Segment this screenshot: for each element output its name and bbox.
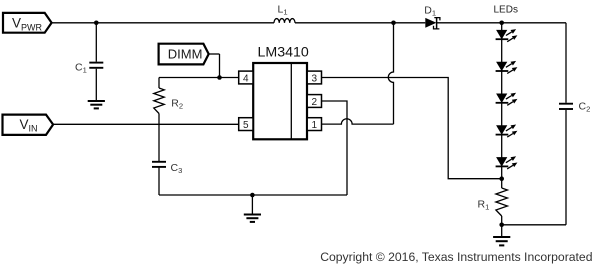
pin 1 box: [307, 118, 321, 131]
capacitor C1: [89, 62, 103, 64]
pin 5 box: [239, 118, 253, 131]
wire DIMM tip to pin4 line: [209, 53, 220, 55]
capacitor C2: [559, 103, 573, 105]
LED D5: [497, 126, 507, 134]
wire R1 to ground node: [501, 216, 503, 225]
op-amp U1 LM3410 body: [253, 63, 307, 139]
wire LED string: [501, 23, 503, 179]
inductor L1: [274, 19, 295, 23]
svg-text:1: 1: [312, 120, 318, 131]
ground below C1: [88, 100, 105, 102]
wire VIN to pin5: [53, 123, 239, 125]
wire R2 to VIN line: [158, 114, 160, 125]
pin 4 box: [239, 71, 253, 84]
wire L1 to SW node: [295, 22, 394, 24]
wire pin4 line corner down to R2: [158, 78, 160, 89]
svg-text:5: 5: [243, 120, 249, 131]
wire C2 to R1 bottom node: [565, 110, 567, 225]
resistor R2: [154, 88, 164, 114]
LED D4: [497, 94, 507, 102]
wire bottom ground rail: [159, 194, 347, 196]
junction LED bottom / R1 top node: [499, 176, 504, 181]
svg-text:LM3410: LM3410: [258, 45, 309, 61]
wire C1 node down to C1: [95, 23, 97, 62]
wire R2 top to pin4: [159, 77, 239, 79]
net tag DIMM: [159, 44, 209, 65]
net tag VIN: [3, 115, 54, 135]
wire ground stem R1: [501, 225, 503, 237]
ground below R1: [493, 236, 510, 238]
wire pin2 to ground rail: [322, 101, 348, 195]
wire LED bottom to R1: [501, 179, 503, 188]
wire FB riser with hop over pin3 wire: [388, 23, 393, 124]
wire down to C2: [565, 23, 567, 103]
wire pin3 to R1 top node: [322, 78, 502, 179]
junction LED top node: [499, 21, 504, 26]
wire LED node to C2 corner: [502, 22, 566, 24]
svg-text:4: 4: [243, 73, 249, 84]
diode D1 (Schottky): [425, 18, 436, 28]
wire SW node to D1 anode: [394, 22, 426, 24]
wire C1 node to L1: [96, 22, 274, 24]
svg-text:Copyright © 2016, Texas Instru: Copyright © 2016, Texas Instruments Inco…: [320, 250, 592, 264]
junction SW node: [391, 21, 396, 26]
net tag VPWR: [3, 13, 52, 33]
svg-text:3: 3: [312, 73, 318, 84]
wire D1 cathode to LED top node: [437, 22, 502, 24]
LED D2: [497, 30, 507, 38]
wire C3 to bottom rail: [158, 167, 160, 195]
junction DIMM/R2/pin4 node: [217, 75, 222, 80]
LED D3: [497, 62, 507, 70]
pin 3 box: [307, 71, 321, 84]
svg-text:2: 2: [312, 97, 318, 108]
pin 2 box: [307, 95, 321, 108]
wire VPWR to C1 node: [52, 22, 97, 24]
capacitor C3: [152, 161, 166, 163]
junction R1 bottom / C2 / ground node: [499, 223, 504, 228]
junction VPWR/C1 node: [94, 21, 99, 26]
wire C1 to ground: [95, 69, 97, 101]
wire VIN line down to C3: [158, 124, 160, 161]
junction ground rail: [250, 193, 255, 198]
svg-text:DIMM: DIMM: [168, 47, 203, 62]
ground bottom middle: [244, 214, 261, 216]
svg-text:LEDs: LEDs: [494, 5, 518, 16]
resistor R1: [496, 188, 508, 216]
wire pin1 with hop over pin2 wire: [322, 119, 394, 124]
wire ground stem mid: [251, 195, 253, 215]
LED D6: [497, 158, 507, 166]
